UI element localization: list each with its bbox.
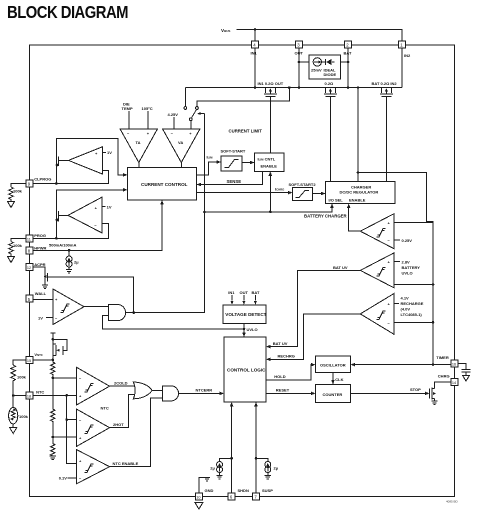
svg-text:(4.0V: (4.0V (401, 307, 411, 312)
pin 11 PROG (26, 233, 46, 242)
current source I3 2uA SUSP (256, 458, 279, 479)
wire DIE TEMP stub (128, 111, 130, 129)
junction OUT/rail (298, 86, 301, 89)
svg-text:IN2: IN2 (404, 53, 411, 58)
svg-text:ACPR: ACPR (34, 262, 45, 267)
junction NTC external node (12, 394, 15, 397)
junction SHDN pulldown (230, 457, 233, 460)
svg-text:4085 BD: 4085 BD (446, 500, 459, 504)
wire M1 gate to Ilim cntl (269, 97, 271, 153)
resistor R4 divider top (51, 362, 55, 378)
wire ILIM from current control to soft-start (197, 162, 217, 175)
svg-text:WALL: WALL (35, 291, 47, 296)
svg-text:500mA/100mA: 500mA/100mA (49, 243, 76, 248)
comparator CP5 2COLD (77, 367, 110, 405)
svg-text:CURRENT CONTROL: CURRENT CONTROL (141, 182, 188, 187)
wire BAT detect stub (254, 295, 256, 300)
svg-text:NTC: NTC (101, 406, 109, 411)
block soft-start 2 (289, 182, 317, 201)
svg-text:OUT: OUT (240, 290, 249, 295)
junction VNTC/divider (52, 359, 55, 362)
svg-text:UVLO: UVLO (247, 327, 258, 332)
wire 1V to CP1 (46, 317, 53, 319)
wire OR1 to AND2 (152, 389, 162, 391)
comparator CP4 recharge (360, 294, 394, 335)
resistor R6 divider bottom (51, 437, 55, 456)
wire NTC sense rail down (67, 395, 77, 463)
wire power switch rail (185, 87, 402, 89)
svg-text:2COLD: 2COLD (114, 380, 128, 385)
svg-text:2µ: 2µ (274, 465, 279, 470)
wire internal divider rail (52, 360, 54, 362)
amplifier A2 PROG servo (68, 197, 102, 233)
svg-text:DC/DC REGULATOR: DC/DC REGULATOR (340, 190, 379, 195)
junction Q5 gate loop (52, 338, 55, 341)
wire 2COLD out to OR (110, 385, 134, 387)
svg-text:ILIM: ILIM (207, 155, 214, 160)
wire SHDN to control logic (231, 406, 233, 493)
wire OUT detect stub (243, 295, 245, 300)
junction OUT/diode (298, 61, 301, 64)
wire TA out (138, 163, 140, 168)
wire BAT sense to right column (358, 172, 433, 364)
wire VNTC external to bias resistor (13, 360, 26, 365)
ground PROG resistor (8, 257, 15, 263)
svg-text:CONTROL LOGIC: CONTROL LOGIC (227, 368, 266, 373)
wire RESET to counter (266, 392, 312, 394)
label 1V A2 (102, 205, 106, 207)
junction BAT/diode (347, 61, 350, 64)
svg-text:NTC ENABLE: NTC ENABLE (113, 461, 139, 466)
wire switch feed 1 (184, 88, 186, 107)
wire CP2 out to charger enable (349, 208, 361, 231)
svg-text:I/O SEL: I/O SEL (329, 198, 344, 203)
svg-text:VBUS: VBUS (221, 28, 230, 33)
op-amp VA voltage amp (163, 129, 201, 163)
svg-text:RECHRG: RECHRG (278, 354, 295, 359)
wire SUSP to control logic (255, 406, 257, 493)
ground CLPROG resistor (8, 202, 15, 208)
pin 14 CHRG (438, 374, 458, 386)
wire UVLO to control logic (243, 323, 245, 332)
junction divider node B (52, 436, 55, 439)
svg-text:BATTERY CHARGER: BATTERY CHARGER (304, 214, 348, 219)
wire VNTC net (33, 359, 53, 361)
wire HPWR net to current control (33, 205, 162, 251)
transistor Q1 CLPROG sense (55, 155, 69, 184)
block voltage detect (223, 305, 267, 324)
svg-text:18: 18 (27, 395, 31, 399)
block counter (315, 384, 350, 402)
wire mode net to ilim enable (269, 176, 271, 212)
svg-text:TIMER: TIMER (436, 355, 449, 360)
junction rail/BAT branch (357, 86, 360, 89)
wire M2 gate to charger block (329, 97, 331, 182)
svg-text:2.8V: 2.8V (402, 260, 411, 265)
amplifier A1 CLPROG servo (69, 147, 103, 174)
svg-text:1V: 1V (107, 204, 112, 209)
wire M3 gate to charger block (385, 97, 387, 182)
wire ACPR gate from wall AND (51, 277, 134, 313)
svg-text:SUSP: SUSP (262, 488, 273, 493)
svg-text:OSCILLATOR: OSCILLATOR (320, 363, 346, 368)
svg-text:1V: 1V (38, 315, 43, 320)
wire CLK oscillator to counter (332, 373, 334, 381)
svg-text:LTC4085-1): LTC4085-1) (401, 312, 423, 317)
svg-text:ENABLE: ENABLE (349, 198, 366, 203)
wire STOP from counter (351, 392, 425, 394)
wire GND internal (199, 477, 207, 493)
pin 18 NTC (26, 389, 44, 399)
label 1V A1 (102, 151, 106, 153)
wire 105C stub (147, 111, 149, 129)
switch S1 feedback select (184, 107, 205, 129)
svg-text:ENABLE: ENABLE (261, 164, 278, 169)
svg-text:TA: TA (136, 140, 141, 145)
svg-text:DIODE: DIODE (324, 72, 337, 77)
wire PROG external (11, 238, 26, 241)
transistor M1 IN1-OUT 0.2ohm (258, 81, 284, 97)
svg-text:STOP: STOP (410, 387, 421, 392)
IC package border (30, 45, 455, 497)
ground GND internal (204, 477, 210, 481)
wire VA out (180, 163, 182, 168)
wire bias resistor to NTC pin (13, 392, 26, 396)
ground GND external (195, 503, 203, 510)
wire WALL to comparator (33, 298, 53, 300)
wire CP1 out to AND1 (84, 306, 109, 308)
wire OUT pillar (298, 48, 300, 88)
wire switch feed 2 (197, 88, 289, 107)
wire sense from ilim cntl to current control (201, 171, 262, 184)
pin 5 WALL (26, 291, 47, 302)
junction divider node A (52, 377, 55, 380)
wire AND1 output net (126, 114, 204, 313)
current source I2 2uA SHDN (210, 458, 231, 479)
pin 1 IN2 (399, 41, 412, 58)
svg-text:100k: 100k (13, 243, 23, 248)
svg-text:2HOT: 2HOT (113, 422, 124, 427)
svg-text:4.25V: 4.25V (168, 112, 179, 117)
transistor M3 BAT-IN2 0.2ohm (372, 81, 398, 97)
wire AND1 input2 from UVLO (103, 315, 244, 329)
svg-text:BAT 0.2Ω IN2: BAT 0.2Ω IN2 (372, 81, 398, 86)
pin 7 SUSP (253, 488, 274, 500)
junction UVLO / wall AND branch (243, 328, 246, 331)
svg-text:SOFT-START: SOFT-START (221, 149, 246, 154)
svg-text:0.2Ω: 0.2Ω (325, 81, 335, 86)
pin 4 IN1 (251, 41, 259, 56)
svg-text:GND: GND (205, 488, 214, 493)
wire CP2 plus from BAT sense (394, 222, 433, 224)
pin 15 VNTC (26, 352, 43, 363)
svg-text:0.1V: 0.1V (59, 476, 68, 481)
svg-text:12: 12 (27, 266, 31, 270)
wire PROG limit rail into current control (56, 190, 123, 210)
comparator CP3 battery UVLO (360, 253, 394, 288)
svg-text:100k: 100k (17, 375, 27, 380)
pin 12 ACPR (26, 262, 46, 270)
wire NTC net to comparators (33, 394, 77, 396)
svg-text:1V: 1V (107, 150, 112, 155)
svg-text:0.25V: 0.25V (402, 238, 413, 243)
transistor Q3 ACPR open drain (33, 267, 51, 289)
wire soft-start2 to charger (313, 193, 322, 195)
op-amp TA thermal amp (120, 129, 158, 163)
wire BAT pillar (347, 48, 349, 88)
svg-text:BAT UV: BAT UV (273, 341, 288, 346)
svg-text:VNTC: VNTC (34, 352, 42, 357)
pin 2 BAT (344, 41, 352, 56)
svg-text:PROG: PROG (34, 233, 46, 238)
wire soft-start to ilim cntl (242, 162, 250, 164)
thermistor RT 100k (9, 396, 29, 434)
pin 8 HPWR (26, 246, 47, 254)
wire TIMER net to oscillator (354, 364, 451, 366)
svg-text:SOFT-START2: SOFT-START2 (289, 182, 317, 187)
transistor Q5 VNTC pullup (50, 333, 67, 360)
svg-text:ICHRG: ICHRG (275, 187, 284, 192)
svg-text:10: 10 (196, 496, 200, 500)
wire 2HOT minus stub (67, 419, 77, 421)
svg-text:SHDN: SHDN (238, 488, 249, 493)
wire VBUS rail (237, 30, 403, 42)
comparator CP1 wall detect (53, 289, 84, 325)
wire node B to 2HOT plus (53, 436, 77, 438)
wire ideal diode to BAT (341, 61, 349, 63)
junction Q1 source/CLPROG (55, 182, 58, 185)
svg-text:ILIM CNTL: ILIM CNTL (258, 157, 276, 162)
junction Q2 source/PROG (55, 237, 58, 240)
svg-text:UVLO: UVLO (402, 271, 413, 276)
svg-text:2µ: 2µ (74, 260, 79, 265)
junction IN1/rail (254, 86, 257, 89)
block Ilim cntl enable (255, 153, 285, 172)
junction AND1 out / ACPR branch (132, 311, 135, 314)
wire IN1 detect stub (231, 295, 233, 300)
wire node A to 2COLD minus (53, 377, 77, 379)
wire 0.1V stub (68, 477, 77, 479)
wire IN2 pillar (401, 48, 403, 88)
wire CP3 out BAT UV to control logic (271, 270, 361, 346)
resistor R5 divider mid (51, 409, 55, 437)
svg-text:BATTERY: BATTERY (402, 265, 421, 270)
pin 10 GND (195, 488, 213, 500)
block charger dc/dc regulator (326, 182, 396, 204)
wire PROG net (33, 223, 109, 238)
svg-text:RESET: RESET (276, 388, 290, 393)
block oscillator (315, 356, 350, 373)
junction HPWR/pulldown (68, 249, 71, 252)
wire CP2 minus ref stub (394, 239, 400, 241)
resistor R3 NTC bias 100k (11, 365, 16, 392)
junction VBUS/IN1 (254, 28, 257, 31)
svg-text:TEMP: TEMP (122, 106, 133, 111)
block soft-start 1 (221, 149, 246, 171)
svg-text:CLK: CLK (335, 377, 343, 382)
junction BAT/rail (347, 86, 350, 89)
svg-text:IN1: IN1 (251, 51, 258, 56)
svg-text:11: 11 (27, 237, 31, 241)
svg-text:16: 16 (452, 363, 456, 367)
gate AND2 ntcerr (163, 386, 179, 401)
gate OR1 ntc fault (133, 382, 152, 399)
svg-text:RECHARGE: RECHARGE (401, 301, 424, 306)
wire 4.25V stub (173, 117, 175, 129)
wire CP3 minus from BAT sense (394, 284, 433, 286)
svg-text:IN1: IN1 (228, 290, 235, 295)
wire CLPROG external (11, 184, 26, 188)
resistor R1 CLPROG 100k (9, 187, 13, 201)
pin 6 SHDN (228, 488, 249, 500)
svg-text:VA: VA (178, 140, 183, 145)
svg-text:25mV: 25mV (311, 68, 322, 73)
svg-text:BAT UV: BAT UV (333, 265, 348, 270)
resistor R2 PROG 100k (9, 242, 13, 257)
wire NTCERR to control logic (179, 392, 220, 394)
wire divider rail continue (52, 378, 54, 409)
svg-text:BLOCK DIAGRAM: BLOCK DIAGRAM (7, 2, 128, 22)
pin 16 TIMER (436, 355, 458, 367)
ideal diode block U-diode (309, 55, 341, 79)
junction sense rail / 2HOT minus (65, 418, 68, 421)
svg-text:15: 15 (27, 359, 31, 363)
svg-text:SENSE: SENSE (227, 179, 242, 184)
junction mode net / ilim enable branch (269, 211, 272, 214)
comparator CP7 NTC enable (77, 450, 110, 484)
wire NTC enable out to AND2 (110, 398, 163, 467)
wire CLPROG limit rail into current control (56, 138, 123, 175)
wire BAT branch down to charger (357, 88, 359, 182)
pin 9 CLPROG (26, 177, 51, 188)
svg-text:CURRENT LIMIT: CURRENT LIMIT (229, 128, 263, 133)
comparator CP2 enable 0.25V (360, 214, 394, 249)
wire CP3 plus ref stub (394, 261, 400, 263)
wire mode net to IO SEL (205, 208, 333, 212)
svg-text:COUNTER: COUNTER (323, 392, 343, 397)
current source I1 2uA HPWR (66, 250, 79, 273)
capacitor C timer (458, 364, 471, 381)
wire CLPROG net (33, 171, 109, 184)
junction BAT branch / BAT sense (357, 171, 360, 174)
svg-text:IN1 0.2Ω OUT: IN1 0.2Ω OUT (258, 81, 284, 86)
svg-text:4.1V: 4.1V (401, 296, 410, 301)
svg-text:NTC: NTC (36, 389, 44, 394)
svg-text:HOLD: HOLD (274, 374, 285, 379)
label 2.8V BATTERY UVLO (402, 260, 421, 276)
junction SUSP pulldown (255, 457, 258, 460)
svg-text:100k: 100k (13, 189, 23, 194)
gate AND1 wall qualify (109, 305, 126, 321)
block current control (128, 168, 197, 201)
svg-text:BAT: BAT (252, 290, 260, 295)
svg-text:100k: 100k (19, 414, 29, 419)
wire VBUS stub to pin 4 (254, 30, 256, 42)
block control logic (224, 337, 266, 402)
wire CP4 plus ref stub (394, 303, 399, 305)
wire CP4 minus from BAT sense (394, 321, 433, 323)
svg-text:CLPROG: CLPROG (34, 177, 51, 182)
wire OUT to ideal diode (299, 61, 309, 63)
svg-text:2µ: 2µ (210, 465, 215, 470)
pin 3 OUT (295, 41, 304, 56)
svg-text:CHRG: CHRG (438, 374, 450, 379)
wire IN1 pillar (254, 48, 256, 88)
comparator CP6 2HOT (77, 409, 110, 446)
transistor M2 OUT-BAT 0.2ohm (324, 81, 337, 97)
svg-text:14: 14 (452, 381, 456, 385)
junction NTC / sense rail (65, 394, 68, 397)
wire CP4 out RECHRG to control logic (271, 314, 361, 359)
label 4.1V RECHARGE (401, 296, 424, 318)
transistor Q2 PROG sense (55, 210, 68, 239)
wire ICHRG to soft-start2 (197, 192, 289, 194)
junction mode net / IO SEL branch (203, 211, 206, 214)
transistor Q4 CHRG open drain (429, 382, 451, 405)
svg-text:VOLTAGE DETECT: VOLTAGE DETECT (225, 312, 266, 317)
junction BAT sense / CP4 minus (432, 321, 435, 324)
junction TIMER / BAT column (432, 363, 435, 366)
svg-text:105°C: 105°C (142, 106, 153, 111)
ground divider (50, 456, 56, 460)
wire HOLD to oscillator (266, 365, 311, 380)
junction rail/switch feed 2 (288, 86, 291, 89)
junction BAT sense / CP3 minus (432, 283, 435, 286)
svg-text:NTCERR: NTCERR (196, 388, 213, 393)
wire 2HOT out to OR (110, 395, 134, 428)
